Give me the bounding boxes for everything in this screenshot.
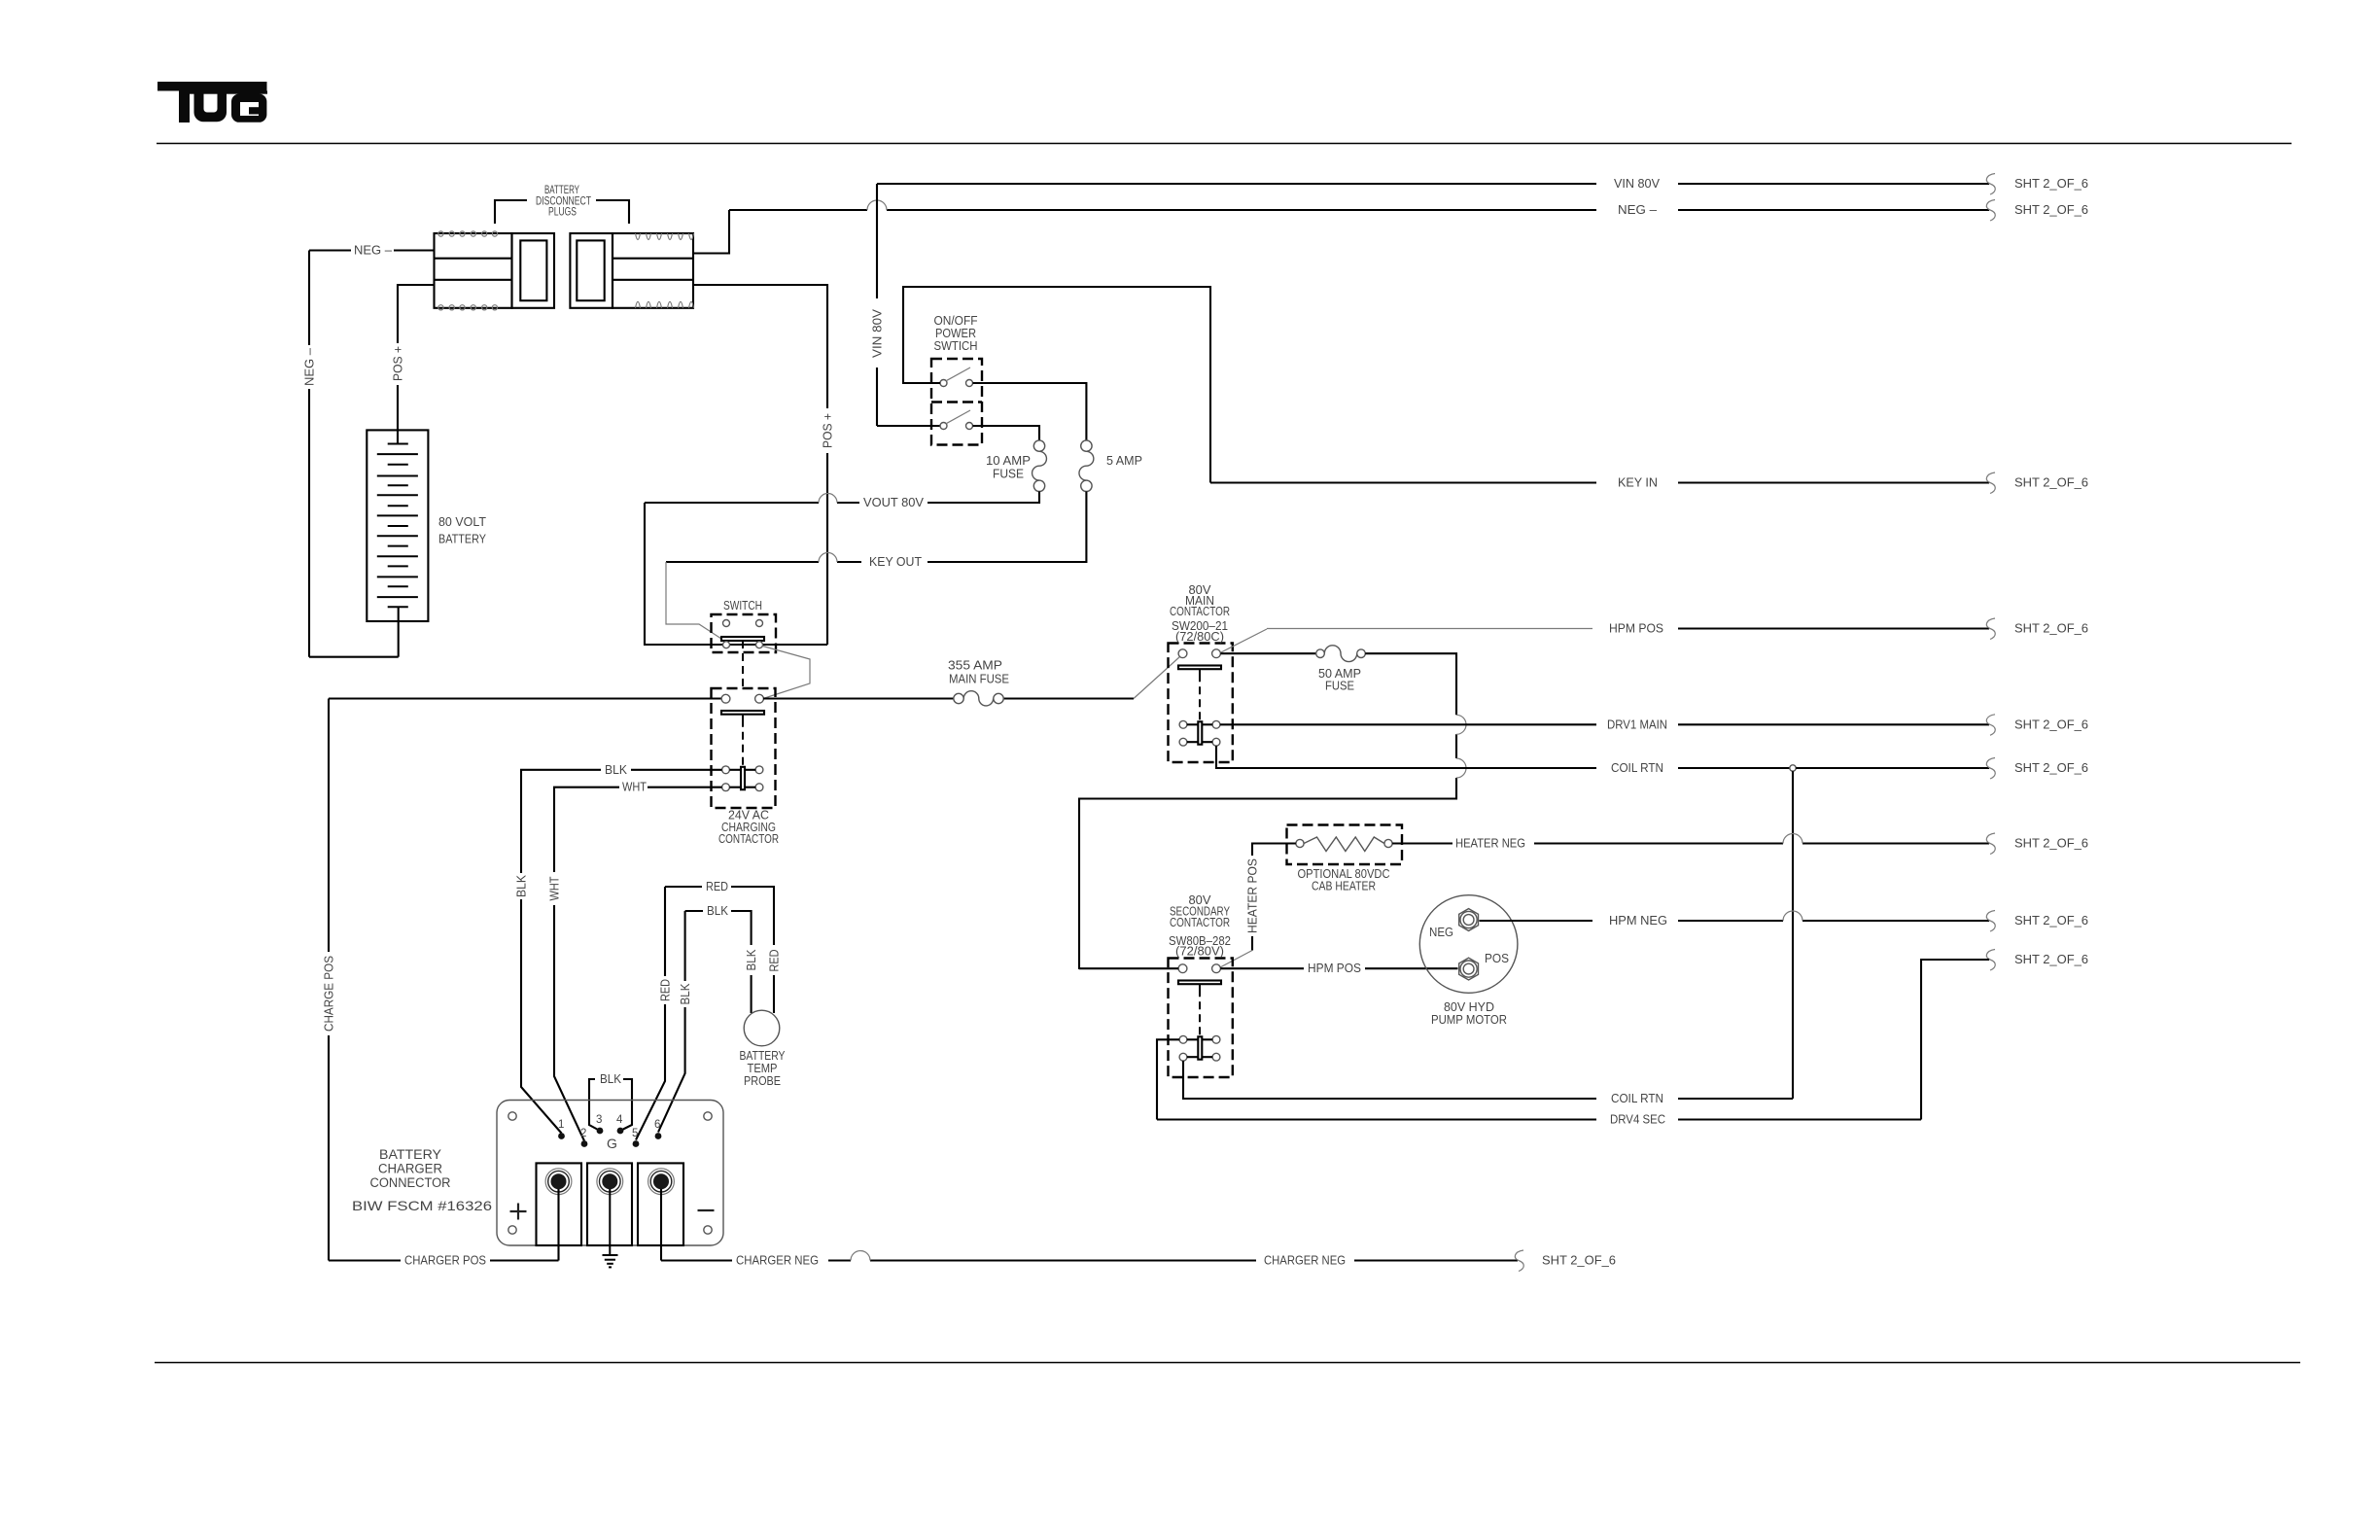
wire BLK bracket left leg to pin 3 [589,1079,600,1131]
svg-text:POS: POS [1485,952,1509,965]
wire WHT to charging contactor coil [554,787,722,1141]
ground [603,1189,618,1267]
wire switch pole1 to KEY IN [903,287,1210,483]
net KEY IN wire to sheet 2 [1210,481,1989,483]
wire heater to HEATER POS vertical [1252,844,1296,951]
svg-text:SHT 2_OF_6: SHT 2_OF_6 [2014,953,2088,966]
bottom border rule [155,1362,2300,1364]
off-sheet hook CHARGER NEG [1515,1250,1523,1272]
label 80V SECONDARY CONTACTOR SW80B-282 (72/80V) [1169,893,1231,959]
off-sheet hook HPM POS [1986,618,1995,640]
svg-text:SHT 2_OF_6: SHT 2_OF_6 [2014,761,2088,775]
fuse F4 50 AMP [1316,646,1366,662]
label BATTERY TEMP PROBE [740,1049,787,1088]
80V secondary contactor SW80B-282 [1169,959,1233,1078]
80V main contactor SW200-21 [1169,644,1233,763]
svg-text:POS +: POS + [392,346,405,381]
wire 50 AMP fuse down to secondary contactor (with hops) [1079,653,1456,969]
net KEY OUT wire with hop [666,561,861,563]
svg-text:ON/OFF: ON/OFF [934,314,978,328]
POS terminal [1459,958,1479,980]
svg-text:BLK: BLK [600,1072,622,1086]
socket G [587,1163,632,1245]
battery 80 VOLT BATTERY [367,430,428,656]
socket - [638,1163,683,1245]
svg-text:RED: RED [768,950,782,972]
wire VOUT loop bottom right [730,644,828,646]
wire switch pole1 to 5 AMP fuse [973,383,1087,440]
wire secondary contactor HPM POS to pump motor [1079,967,1458,969]
label 80V HYD PUMP MOTOR [1431,1000,1507,1027]
NEG terminal [1459,909,1479,931]
svg-text:SHT 2_OF_6: SHT 2_OF_6 [2014,837,2088,851]
svg-text:COIL RTN: COIL RTN [1611,1092,1663,1105]
charging interlock SWITCH [712,614,777,688]
svg-text:SHT 2_OF_6: SHT 2_OF_6 [1542,1254,1616,1268]
wire BLK bracket right leg to pin 4 [620,1079,632,1131]
pin 4 [617,1128,624,1135]
label 80V MAIN CONTACTOR SW200-21 (72/80C) [1170,583,1230,644]
net HPM NEG wire to sheet 2 (hop at junction vertical) [1480,920,1990,922]
hop over COIL RTN [1456,758,1466,778]
svg-text:10 AMP: 10 AMP [986,454,1031,468]
label BATTERY CHARGER CONNECTOR [370,1147,451,1190]
label 10 AMP FUSE [986,454,1031,481]
svg-text:CHARGE POS: CHARGE POS [323,956,336,1032]
wire plug right top terminal to NEG net [693,210,729,254]
wire BLK to charging contactor coil [521,770,722,1134]
off-sheet hook KEY IN [1986,472,1995,494]
wire NEG label to plug [394,249,435,251]
junction node on COIL RTN [1790,765,1796,771]
wire main contactor blade to HPM POS [1220,629,1267,653]
TUG logo [157,82,267,122]
svg-text:355 AMP: 355 AMP [948,659,1002,673]
svg-text:80 VOLT: 80 VOLT [438,515,486,529]
off-sheet hook DRV4 SEC route [1986,950,1995,971]
24V AC charging contactor [712,688,776,808]
wire main contactor coil to COIL RTN [1216,746,1790,768]
svg-text:SWITCH: SWITCH [723,599,762,612]
wire COIL RTN junction vertical [1792,771,1794,1099]
off-sheet hook COIL RTN [1986,758,1995,780]
wire 5 AMP fuse to KEY OUT [927,492,1086,563]
svg-text:VIN 80V: VIN 80V [1614,177,1661,191]
wire switch blade to charging contactor [763,647,811,699]
svg-text:HPM POS: HPM POS [1308,962,1361,975]
wire BLK vertical to pin 6 [658,911,685,1133]
label 24V AC CHARGING CONTACTOR [718,809,779,847]
net DRV1 MAIN wire to sheet 2 [1220,723,1989,725]
svg-text:VIN 80V: VIN 80V [871,308,885,358]
leader lines for plugs label [495,200,629,224]
svg-text:CHARGER NEG: CHARGER NEG [1264,1254,1346,1268]
svg-text:BIW FSCM #16326: BIW FSCM #16326 [352,1198,492,1213]
svg-text:4: 4 [616,1114,623,1126]
wire secondary coil to DRV4 SEC [1157,1039,1921,1119]
svg-text:BLK: BLK [605,763,628,777]
off-sheet hook VIN 80V [1986,174,1995,195]
svg-text:SHT 2_OF_6: SHT 2_OF_6 [2014,203,2088,217]
svg-text:CONTACTOR: CONTACTOR [718,832,779,846]
wire 10 AMP fuse to VOUT 80V [927,492,1039,504]
wire switch pole2 to 10 AMP fuse [973,426,1040,440]
wire KEY OUT gray loop to charging switch [666,562,721,639]
svg-text:SHT 2_OF_6: SHT 2_OF_6 [2014,476,2088,490]
svg-text:RED: RED [659,979,673,1001]
pin 1 [558,1133,565,1139]
net VOUT 80V wire with hop over POS vertical [645,502,859,504]
svg-text:SWTICH: SWTICH [934,339,978,353]
svg-text:6: 6 [654,1119,660,1131]
wire CHARGE POS to charging contactor [329,697,721,699]
hop on NEG line at VIN vertical [867,200,887,210]
svg-text:CHARGER: CHARGER [378,1162,442,1176]
svg-text:PLUGS: PLUGS [548,207,577,219]
wire CHARGE POS vertical [328,699,330,1261]
net HEATER NEG wire to sheet 2 (hop at junction vertical) [1392,842,1989,844]
wire CHARGER NEG line with hop [661,1259,1518,1261]
svg-text:MAIN FUSE: MAIN FUSE [949,673,1009,686]
svg-text:NEG: NEG [1429,926,1453,939]
svg-text:RED: RED [706,880,728,893]
wire CHARGER POS line [329,1259,559,1261]
label ON/OFF POWER SWTICH [934,314,978,353]
svg-text:BLK: BLK [745,949,758,971]
svg-text:TEMP: TEMP [748,1062,778,1075]
pin 3 [597,1128,604,1135]
svg-text:SHT 2_OF_6: SHT 2_OF_6 [2014,177,2088,191]
fuse F3 355 AMP MAIN [954,691,1003,706]
svg-text:SHT 2_OF_6: SHT 2_OF_6 [2014,717,2088,731]
wire RED vertical to pin 5 [636,887,665,1140]
svg-text:NEG –: NEG – [354,244,392,258]
wire BLK to battery temp probe [685,911,752,1013]
wire POS + from plug down to battery [398,285,435,444]
svg-text:80V HYD: 80V HYD [1444,1000,1494,1014]
svg-text:CAB HEATER: CAB HEATER [1312,880,1376,893]
wire + socket to CHARGER POS [557,1189,559,1261]
hop on VOUT line [819,494,837,503]
net HPM POS wire to sheet 2 [1267,628,1592,630]
svg-text:HEATER NEG: HEATER NEG [1455,837,1525,851]
off-sheet hook NEG [1986,200,1995,222]
label 50 AMP FUSE [1318,667,1361,693]
wire NEG label to left vertical [309,249,351,251]
svg-text:BLK: BLK [707,904,729,918]
svg-text:HPM NEG: HPM NEG [1609,914,1667,927]
svg-text:(72/80C): (72/80C) [1175,630,1224,644]
svg-text:POS +: POS + [822,413,835,448]
pin 2 [581,1140,588,1147]
wire secondary coil to COIL RTN (lower) [1183,1061,1793,1099]
svg-text:VOUT 80V: VOUT 80V [863,496,925,509]
svg-text:(72/80V): (72/80V) [1175,945,1224,959]
svg-text:NEG –: NEG – [303,348,317,386]
svg-text:HPM POS: HPM POS [1609,622,1663,636]
wire 355 AMP main fuse line [763,697,1134,699]
svg-text:POWER: POWER [935,327,976,340]
svg-text:5 AMP: 5 AMP [1106,454,1142,468]
svg-text:KEY IN: KEY IN [1618,476,1658,490]
svg-text:1: 1 [558,1119,564,1131]
battery charger connector [497,1101,723,1246]
svg-text:5: 5 [632,1128,638,1139]
svg-text:BLK: BLK [515,874,529,897]
label 80 VOLT BATTERY [438,515,487,546]
svg-text:BATTERY: BATTERY [379,1147,441,1162]
battery temp probe [744,1010,780,1046]
net NEG - wire to sheet 2 (with hop over VIN vertical) [729,209,1989,211]
fuse F1 10 AMP [1032,440,1047,492]
battery disconnect plug right [570,233,693,308]
wire NEG left vertical (battery negative) [308,251,310,657]
wire main contactor to 50 AMP fuse [1220,652,1315,654]
off-sheet hook HEATER NEG [1986,833,1995,855]
svg-text:SHT 2_OF_6: SHT 2_OF_6 [2014,622,2088,636]
label 355 AMP MAIN FUSE [948,659,1009,686]
svg-text:G: G [607,1136,617,1151]
socket + [537,1163,582,1245]
svg-text:CONTACTOR: CONTACTOR [1170,605,1230,618]
plus mark [510,1204,527,1220]
battery disconnect plugs label [536,185,591,219]
wire diagonal fuse to main contactor [1134,657,1180,699]
svg-text:WHT: WHT [622,781,647,794]
svg-text:FUSE: FUSE [1325,680,1354,693]
wire - socket to CHARGER NEG [660,1189,662,1261]
svg-text:KEY OUT: KEY OUT [869,555,922,569]
svg-text:DRV4 SEC: DRV4 SEC [1610,1113,1665,1127]
wire VIN 80V vertical from switch up [877,184,940,426]
off-sheet hook HPM NEG [1986,911,1995,932]
svg-text:BLK: BLK [679,983,692,1005]
off-sheet hook DRV1 MAIN [1986,715,1995,736]
on/off power switch S1 [931,359,982,445]
wire plug right bottom terminal POS + [693,285,827,645]
hop on HEATER NEG [1783,834,1802,844]
svg-text:PROBE: PROBE [744,1074,781,1088]
svg-text:CHARGER POS: CHARGER POS [404,1254,486,1268]
svg-text:COIL RTN: COIL RTN [1611,761,1663,775]
svg-text:DRV1 MAIN: DRV1 MAIN [1607,717,1667,731]
net COIL RTN wire to sheet 2 [1796,767,1989,769]
svg-text:BATTERY: BATTERY [544,185,579,196]
wire HEATER POS diagonal to secondary contactor [1220,951,1252,968]
svg-text:CONNECTOR: CONNECTOR [370,1175,451,1190]
battery disconnect plug left [435,231,555,310]
fuse F2 5 AMP [1079,440,1094,492]
svg-text:BATTERY: BATTERY [740,1049,787,1063]
wire battery bottom to NEG vertical [309,656,399,658]
svg-text:2: 2 [580,1128,586,1139]
hop on CHARGER NEG [851,1251,870,1261]
minus mark [698,1209,715,1211]
svg-text:FUSE: FUSE [993,468,1024,481]
wire RED to battery temp probe [665,887,774,1013]
wire VOUT loop left side [645,503,723,645]
svg-text:WHT: WHT [548,876,562,900]
hop over DRV1 MAIN [1456,715,1466,734]
svg-text:HEATER POS: HEATER POS [1246,858,1260,933]
top border rule [157,143,2292,145]
svg-text:SHT 2_OF_6: SHT 2_OF_6 [2014,914,2088,927]
svg-text:CHARGER NEG: CHARGER NEG [736,1254,819,1268]
svg-text:3: 3 [596,1114,602,1126]
pin 6 [655,1133,662,1139]
svg-text:CONTACTOR: CONTACTOR [1170,916,1230,929]
hop on KEY OUT line [819,553,837,563]
optional 80VDC cab heater [1287,825,1403,865]
pin 5 [633,1140,640,1147]
net VIN 80V wire to sheet 2 [877,183,1989,185]
80V hyd pump motor [1419,895,1518,994]
wire DRV4 SEC riser to sheet [1921,960,1989,1120]
hop on HPM NEG [1783,911,1802,921]
svg-text:BATTERY: BATTERY [438,533,487,546]
svg-text:PUMP MOTOR: PUMP MOTOR [1431,1013,1507,1027]
label OPTIONAL 80VDC CAB HEATER [1298,867,1390,893]
svg-text:NEG –: NEG – [1618,203,1657,217]
